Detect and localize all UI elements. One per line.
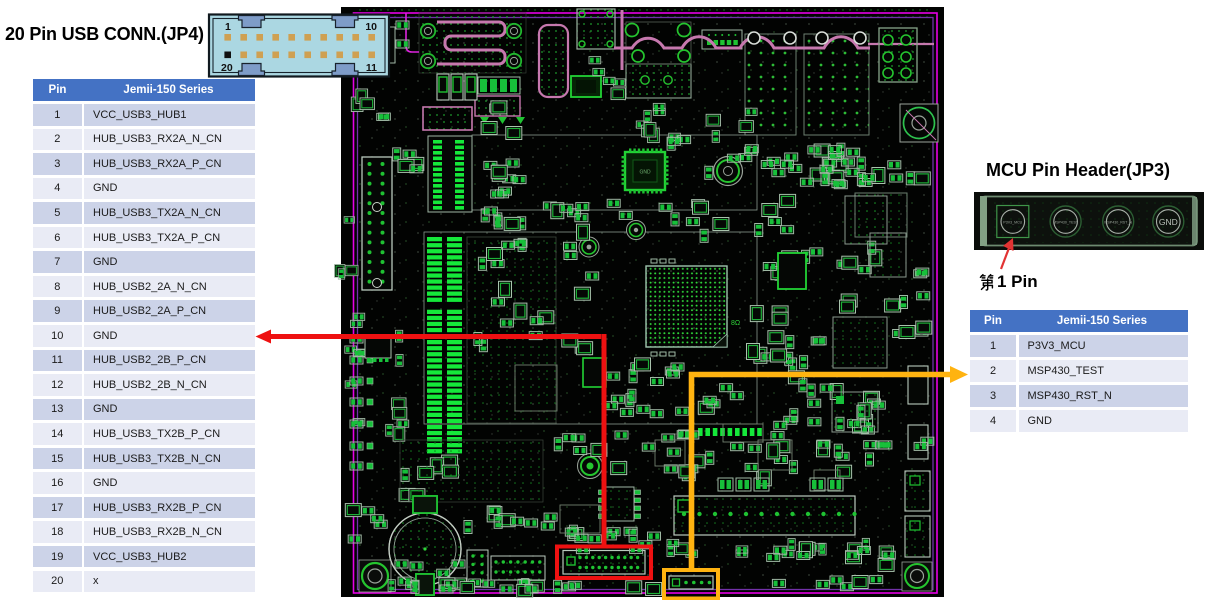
LAN magnetics block B	[804, 34, 869, 135]
module courtyard outline lower	[424, 232, 757, 424]
battery redrawn over keepout	[389, 513, 461, 585]
thermal pour trapezoid	[423, 107, 472, 130]
mounting hole bottom-right	[902, 562, 932, 591]
SOIC-8 U9	[605, 487, 634, 521]
svg-text:MSP430_RST_N: MSP430_RST_N	[1104, 221, 1132, 225]
module courtyard outline upper	[472, 135, 757, 210]
extra bottom passives	[648, 532, 661, 540]
right edge connector A	[908, 366, 928, 404]
JP3 pin 2 (MSP430_TEST)	[1050, 206, 1081, 237]
extra component clusters	[615, 431, 628, 439]
long bottom pin header J10	[674, 496, 855, 535]
JP3 pin 3 (MSP430_RST_N)	[1103, 206, 1134, 237]
bright comb pads	[698, 428, 703, 436]
mounting pad	[507, 24, 521, 38]
dotted keepout near battery	[400, 440, 543, 502]
scattered small components	[403, 150, 416, 158]
power input connector	[879, 28, 917, 82]
left edge passive chain	[350, 335, 363, 343]
DC barrel jack	[900, 104, 938, 142]
vertical board-to-board connector upper	[428, 136, 472, 212]
LAN block mounting holes	[748, 32, 760, 44]
bottom 2x7 pin header	[491, 556, 545, 580]
fiducial circle A	[627, 221, 646, 240]
mounting hole bottom-left	[359, 560, 391, 592]
medium IC U17	[832, 392, 878, 432]
CPU side pads	[651, 352, 657, 356]
QFP U5	[625, 152, 665, 190]
MCU pin header photo	[974, 192, 1204, 250]
small QFP U6	[571, 76, 601, 97]
orange callout line to JP3 header	[692, 366, 969, 570]
right edge connector C	[905, 471, 930, 511]
mounting hole center-right	[714, 157, 743, 186]
MCU pin header JP3 photo background	[974, 192, 1204, 250]
bottom-left extra parts	[395, 560, 408, 568]
svg-text:P3V3_MCU: P3V3_MCU	[1003, 221, 1022, 225]
fiducial circle B	[579, 237, 599, 257]
red callout line to JP4 connector	[256, 330, 607, 548]
medium IC U12	[845, 196, 887, 244]
title: MCU Pin Header(JP3)	[986, 160, 1170, 181]
medium IC U15	[870, 233, 906, 277]
svg-text:10: 10	[365, 21, 377, 33]
JP4 connector footprint (in red box)	[563, 551, 645, 575]
bright passive banks above long header	[718, 478, 843, 491]
top copper pour region with mounting pads	[419, 13, 526, 73]
right edge connector D	[905, 516, 930, 557]
svg-text:GND: GND	[639, 170, 651, 176]
left 44-pin connector J1	[362, 157, 392, 290]
QFN U14	[778, 253, 806, 289]
CPU BGA U1	[646, 266, 727, 347]
small QFN U16	[583, 358, 606, 387]
SODIMM socket pads	[427, 237, 442, 241]
mounting hole mid-bottom	[578, 454, 603, 479]
extra top-right passives	[821, 173, 829, 186]
board outline purple	[358, 18, 934, 590]
JP3 connector footprint (in orange box)	[669, 576, 713, 589]
mounting pad	[421, 24, 435, 38]
pink top trace	[614, 37, 870, 48]
JP4 pin pads row 11-20 with pin20 key mark	[224, 52, 231, 59]
mounting pad	[421, 54, 435, 68]
svg-text:MSP430_TEST: MSP430_TEST	[1053, 221, 1079, 225]
battery holder BT1	[389, 513, 461, 585]
JP3 photo bezel frame	[981, 197, 1197, 246]
bright passive quad row	[478, 77, 520, 94]
CJK glyph 第 drawn as strokes	[979, 273, 996, 292]
table JP4 pin map (left)	[33, 79, 255, 101]
top edge dotted strip	[355, 8, 933, 17]
medium IC U13	[833, 317, 887, 368]
center stacked connector	[626, 64, 691, 98]
red highlight rect JP4	[557, 547, 651, 579]
JP4 bottom polarization tabs	[239, 64, 265, 76]
bottom 2x4 pin header	[467, 550, 488, 587]
svg-text:11: 11	[366, 62, 377, 74]
top USB connector shield	[577, 9, 615, 49]
right edge connector B	[908, 425, 928, 459]
JP3 pin-1 marker square	[997, 206, 1029, 238]
red arrow to pin1 of JP3 photo	[1001, 238, 1014, 269]
title: 20 Pin USB CONN.(JP4)	[5, 24, 204, 45]
board outline magenta	[354, 13, 938, 593]
connector JP4 pictogram body	[209, 15, 389, 77]
JP3 pin 4 (GND)	[1153, 206, 1184, 237]
LAN magnetics block A	[745, 34, 796, 135]
left SOIC	[365, 338, 391, 358]
svg-text:8Ω: 8Ω	[731, 320, 740, 327]
courtyard outlines mid-board	[515, 365, 557, 411]
SODIMM module body	[467, 237, 556, 423]
small top connector	[702, 30, 742, 49]
pcb board black base	[341, 7, 944, 597]
mounting pad	[507, 54, 521, 68]
pour side passive pairs	[396, 21, 409, 29]
svg-text:20: 20	[221, 62, 233, 74]
JP4 connector pictogram	[209, 15, 389, 77]
via field texture	[355, 18, 933, 590]
vertical pour lobe	[539, 25, 568, 97]
label: first pin	[979, 272, 1038, 292]
table JP3 pin map (right)	[970, 310, 1188, 332]
svg-text:GND: GND	[1159, 217, 1178, 227]
right edge dotted block	[855, 193, 907, 237]
JP4 pin pads row 1-10	[224, 34, 231, 41]
JP4 top polarization tabs	[239, 16, 265, 28]
svg-text:1: 1	[225, 21, 231, 33]
power FET bank	[437, 74, 449, 100]
JP3 pin 1 (P3V3_MCU)	[1001, 210, 1025, 234]
small dotted connector left-top	[385, 27, 395, 63]
orange highlight rect JP3	[664, 570, 718, 599]
pink trace horizontal	[868, 43, 934, 45]
